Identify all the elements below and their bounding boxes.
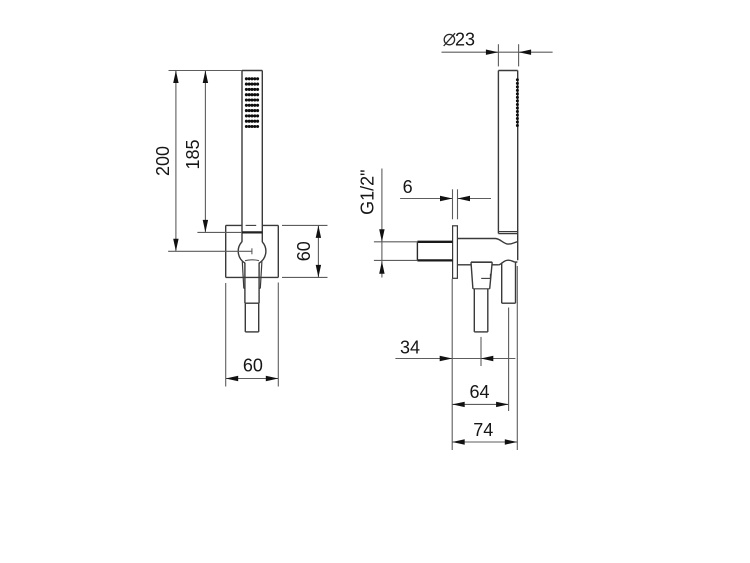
svg-text:185: 185 — [183, 139, 203, 169]
svg-text:60: 60 — [294, 241, 314, 261]
svg-text:64: 64 — [469, 382, 489, 402]
svg-text:60: 60 — [243, 356, 263, 376]
svg-text:74: 74 — [473, 420, 493, 440]
svg-text:200: 200 — [153, 146, 173, 176]
svg-text:23: 23 — [455, 29, 475, 49]
svg-text:6: 6 — [403, 177, 413, 197]
svg-text:G1/2": G1/2" — [358, 169, 378, 214]
svg-text:34: 34 — [400, 338, 420, 358]
